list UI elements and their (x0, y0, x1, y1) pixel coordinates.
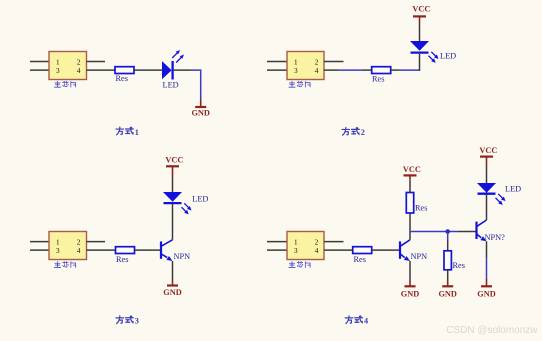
transistor Q2 NPN (400, 240, 410, 261)
ground GND (方式4 under R6) (438, 280, 456, 298)
svg-text:VCC: VCC (165, 156, 183, 165)
wire: Q1 emitter to GND (172, 261, 174, 280)
svg-text:1: 1 (135, 128, 139, 137)
svg-text:VCC: VCC (403, 165, 421, 174)
wire: U2 pin3 stub (267, 69, 287, 71)
svg-text:NPN: NPN (174, 252, 191, 261)
svg-text:4: 4 (364, 317, 368, 326)
label U2 主芯片 (289, 81, 310, 87)
ground GND (方式3) (163, 280, 181, 298)
wire: D4 anode lead (486, 165, 488, 183)
resistor R1 (115, 67, 134, 74)
svg-text:Res: Res (415, 204, 427, 213)
power VCC (方式4 left) (403, 165, 421, 179)
svg-text:3: 3 (135, 317, 139, 326)
wire: Q2 collector up through node to R5 (409, 213, 411, 240)
transistor Q1 NPN (161, 240, 173, 261)
svg-text:NPN?: NPN? (485, 233, 506, 242)
wire: D2 cathode lead (419, 54, 421, 71)
wire: U3 pin2 stub (87, 241, 106, 243)
svg-text:LED: LED (192, 194, 208, 203)
svg-text:GND: GND (438, 289, 456, 298)
power VCC (方式2) (412, 5, 430, 23)
resistor R2 (372, 67, 391, 74)
wire: R6 bottom lead (447, 270, 449, 280)
wire: U1 pin3 stub (30, 69, 49, 71)
svg-text:Res: Res (116, 74, 128, 83)
junction node (445, 229, 450, 234)
label 方式3 (116, 316, 133, 324)
svg-text:Res: Res (354, 255, 366, 264)
svg-text:3: 3 (56, 66, 60, 75)
svg-text:LED: LED (163, 80, 179, 89)
wire: U1 pin1 stub (30, 61, 49, 63)
wire: R1 to D1 anode (134, 69, 162, 71)
svg-text:3: 3 (294, 66, 298, 75)
svg-text:4: 4 (315, 66, 319, 75)
wire: net to D2 (400, 69, 421, 71)
svg-text:GND: GND (191, 109, 209, 118)
wire: U1 pin2 stub (87, 61, 106, 63)
wire: U4 pin3 stub (267, 249, 287, 251)
svg-text:GND: GND (477, 289, 495, 298)
chip U4 main-chip (287, 232, 324, 260)
svg-text:Res: Res (116, 255, 128, 264)
power VCC (方式3) (165, 156, 183, 177)
wire: U4 pin1 stub (267, 241, 287, 243)
wire: U2 pin1 stub (267, 61, 287, 63)
wire: collector node to Q3 base (net) (410, 231, 457, 233)
wire: U3 pin1 stub (30, 241, 49, 243)
svg-text:GND: GND (401, 289, 419, 298)
wire: R4 to Q2 base (372, 249, 400, 251)
resistor R4 (353, 247, 372, 254)
wire: D3 anode lead (172, 177, 174, 192)
svg-text:VCC: VCC (479, 146, 497, 155)
wire: U3 pin4 to R3 (87, 249, 116, 251)
wire: D1 cathode lead (174, 69, 191, 71)
LED D2 (410, 41, 439, 63)
label U1 主芯片 (54, 81, 75, 87)
LED D3 (163, 192, 192, 214)
svg-text:3: 3 (294, 246, 298, 255)
wire: R5 top lead (409, 179, 411, 192)
wire: Q3 collector to D4 (486, 195, 488, 220)
svg-text:NPN: NPN (411, 252, 428, 261)
wire: U2 pin4 lead (324, 69, 339, 71)
svg-text:4: 4 (315, 246, 319, 255)
wire: D2 anode lead (419, 23, 421, 41)
svg-text:LED: LED (505, 184, 521, 193)
label U4 主芯片 (289, 262, 310, 268)
wire: U3 pin3 stub (30, 249, 49, 251)
wire: node down to R6 (447, 232, 449, 242)
svg-text:LED: LED (440, 51, 456, 60)
wire: Q3 emitter lead (486, 241, 488, 259)
label U3 主芯片 (54, 262, 75, 268)
chip U1 main-chip (49, 52, 87, 80)
wire: U2 pin2 stub (324, 61, 344, 63)
ground GND (方式4 under Q2) (401, 281, 419, 299)
svg-text:3: 3 (56, 246, 60, 255)
resistor R6 (vertical) (444, 251, 451, 270)
svg-text:CSDN @solomonzw: CSDN @solomonzw (446, 325, 538, 336)
wire: R3 to Q1 base (135, 249, 161, 251)
wire: R2 left lead (362, 69, 372, 71)
wire: U1 pin4 to R1 (87, 69, 116, 71)
chip U3 main-chip (49, 232, 87, 260)
resistor R3 (116, 247, 135, 254)
wire: corner to GND (net) (191, 70, 201, 99)
wire: U4 pin2 stub (324, 241, 344, 243)
wire: Q3 base lead (457, 231, 476, 233)
ground GND (方式1) (191, 99, 209, 118)
wire: emitter net to GND (486, 259, 488, 279)
wire: R6 top lead (447, 241, 449, 251)
svg-text:4: 4 (77, 246, 81, 255)
wire: U4 pin4 to R4 (324, 249, 353, 251)
label 方式4 (345, 316, 362, 324)
label 方式2 (342, 127, 359, 135)
svg-text:4: 4 (77, 66, 81, 75)
resistor R5 (vertical) (406, 193, 413, 214)
power VCC (方式4 right) (479, 146, 497, 165)
svg-text:Res: Res (372, 75, 384, 84)
LED D1 (162, 50, 184, 80)
wire: Q2 emitter to GND (409, 261, 411, 281)
chip U2 main-chip (287, 52, 324, 80)
wire: net to R2 (339, 69, 362, 71)
LED D4 (477, 183, 506, 205)
transistor Q3 NPN? (477, 220, 487, 241)
svg-text:VCC: VCC (412, 5, 430, 14)
wire: Q1 collector to D3 (172, 204, 174, 240)
wire: R2 right lead (391, 69, 400, 71)
svg-text:2: 2 (361, 128, 365, 137)
label 方式1 (116, 127, 133, 135)
svg-text:Res: Res (453, 261, 465, 270)
ground GND (方式4 under Q3) (477, 278, 495, 298)
svg-text:GND: GND (163, 288, 181, 297)
